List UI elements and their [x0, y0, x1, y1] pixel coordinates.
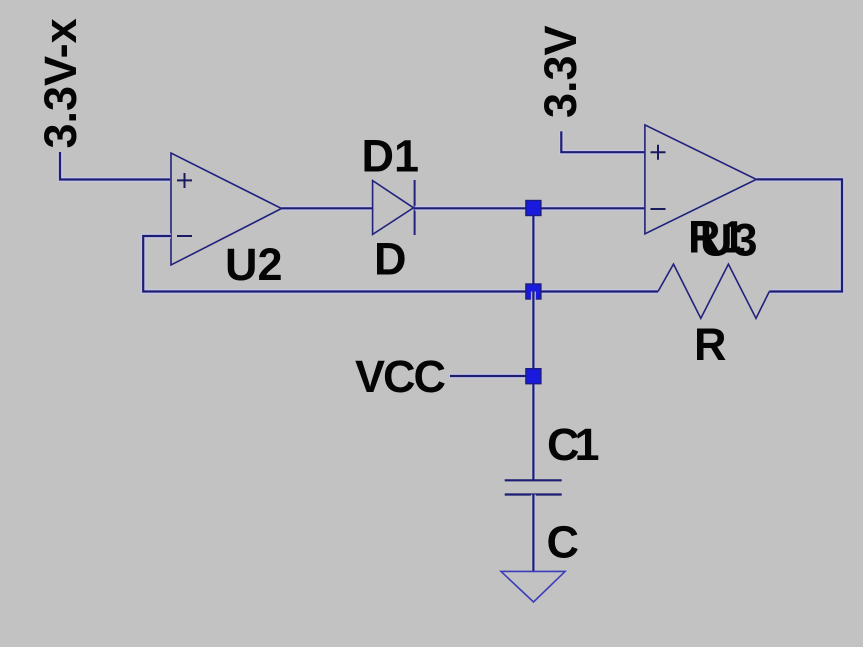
wire: node 1 down to node 2 [531, 208, 536, 291]
net label 3.3V-x [35, 18, 86, 148]
wire: diode cathode to node 1 [415, 206, 534, 211]
svg-text:D1: D1 [362, 131, 420, 182]
label U2 [225, 239, 283, 290]
wire: capacitor C1 to ground [531, 495, 536, 572]
svg-text:R: R [694, 319, 727, 370]
wire: 3.3V net stub to U3 + input [561, 131, 645, 152]
svg-text:3.3V-x: 3.3V-x [35, 18, 86, 148]
svg-text:U3: U3 [700, 215, 758, 266]
label R1 [688, 212, 746, 263]
wire: node 2 down through node 3 to capacitor C1 [531, 292, 536, 481]
junction node 1 [526, 201, 541, 216]
wire: U2 output to diode D1 anode [282, 206, 373, 211]
svg-text:C1: C1 [547, 419, 598, 470]
svg-text:U2: U2 [225, 239, 283, 290]
op-amp U3 [645, 125, 756, 234]
diode D1 [373, 180, 415, 235]
svg-text:VCC: VCC [355, 351, 446, 402]
label D1 [362, 131, 420, 182]
net label VCC [355, 351, 446, 402]
wire: 3.3V-x net stub to U2 + input [60, 152, 170, 180]
feedback wire: U2 - input, left and down, then right to node 2 and resistor [143, 236, 658, 292]
svg-text:D: D [374, 234, 407, 285]
wire: node 1 to U3 inverting input [533, 206, 645, 211]
net label 3.3V [535, 25, 586, 118]
wire: VCC to node 3 [450, 374, 533, 379]
svg-text:3.3V: 3.3V [535, 25, 586, 118]
junction node 3 [526, 369, 541, 384]
svg-text:C: C [547, 517, 580, 568]
value label D [374, 234, 407, 285]
capacitor C1 [505, 480, 562, 494]
value label C [547, 517, 580, 568]
op-amp U2 [171, 153, 282, 265]
junction node 2 [526, 284, 541, 299]
label C1 [547, 419, 598, 470]
resistor R1 zigzag [658, 264, 769, 318]
label U3 [700, 215, 758, 266]
ground [501, 571, 565, 602]
value label R [694, 319, 727, 370]
wire: U3 output right, down, left to resistor R1 [756, 179, 842, 291]
